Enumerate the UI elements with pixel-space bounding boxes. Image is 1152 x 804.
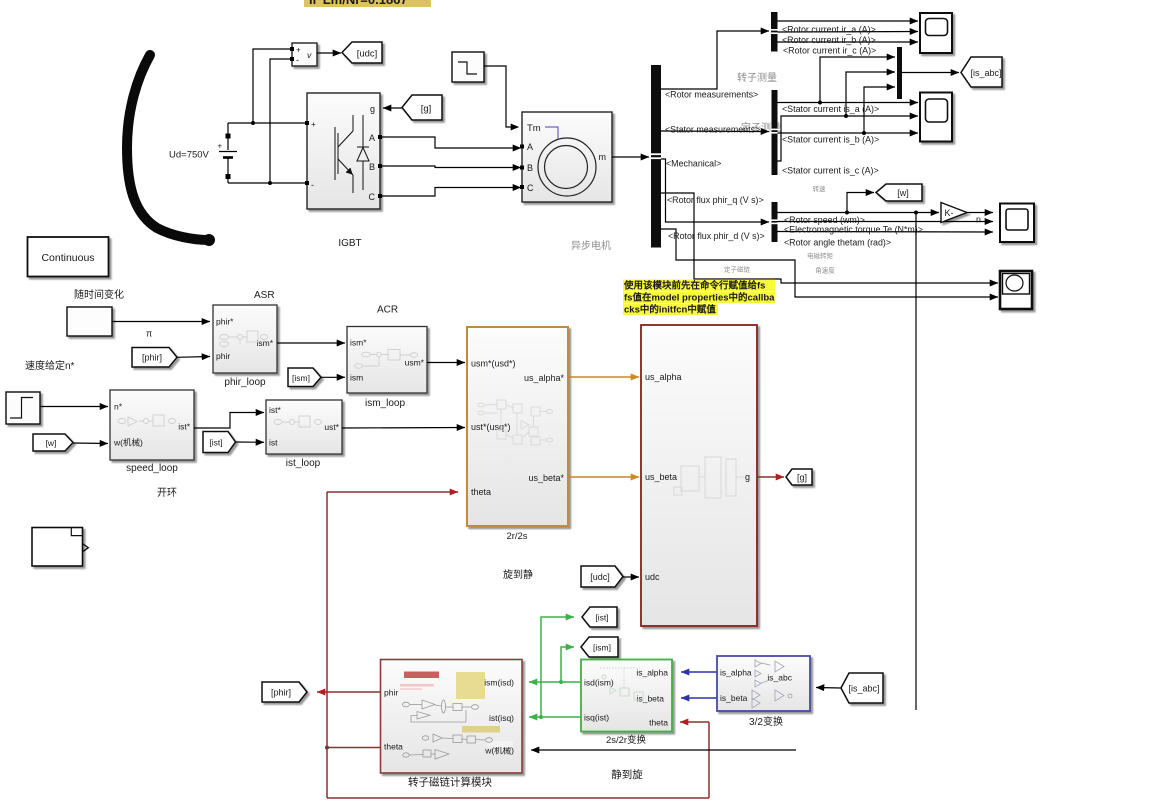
- svg-text:n*: n*: [114, 402, 123, 412]
- svg-text:ir*Lm/Nr=0.1867: ir*Lm/Nr=0.1867: [309, 0, 408, 7]
- svg-text:usm*: usm*: [405, 358, 425, 368]
- svg-text:角速度: 角速度: [815, 266, 835, 275]
- svg-text:is_beta: is_beta: [720, 693, 748, 703]
- svg-text:is_alpha: is_alpha: [720, 668, 752, 678]
- svg-text:<Rotor current ir_c (A)>: <Rotor current ir_c (A)>: [783, 46, 876, 56]
- svg-text:+: +: [296, 46, 301, 55]
- svg-text:<Electromagnetic torque Te (N*: <Electromagnetic torque Te (N*m)>: [784, 225, 923, 235]
- svg-text:usm*(usd*): usm*(usd*): [471, 359, 516, 369]
- svg-text:-: -: [311, 180, 314, 190]
- svg-text:udc: udc: [645, 572, 660, 582]
- svg-text:phir*: phir*: [216, 317, 234, 327]
- svg-text:cks中的initfcn中赋值: cks中的initfcn中赋值: [624, 304, 716, 316]
- svg-text:ACR: ACR: [377, 305, 398, 316]
- svg-text:ust*: ust*: [324, 422, 339, 432]
- svg-text:phir: phir: [216, 351, 230, 361]
- svg-text:电磁转矩: 电磁转矩: [807, 251, 834, 260]
- svg-text:ist_loop: ist_loop: [286, 458, 321, 469]
- svg-text:<Stator measurements>: <Stator measurements>: [665, 125, 760, 135]
- svg-text:<Rotor flux phir_q (V s)>: <Rotor flux phir_q (V s)>: [667, 195, 764, 205]
- svg-text:[phir]: [phir]: [142, 353, 162, 363]
- svg-text:异步电机: 异步电机: [571, 239, 611, 252]
- svg-text:[phir]: [phir]: [271, 688, 291, 698]
- svg-text:2r/2s: 2r/2s: [506, 531, 527, 542]
- svg-text:w(机械): w(机械): [113, 438, 143, 448]
- svg-text:is_beta: is_beta: [637, 694, 665, 704]
- svg-text:m: m: [599, 152, 607, 162]
- svg-text:π: π: [146, 329, 152, 339]
- svg-text:转速: 转速: [813, 184, 827, 193]
- svg-text:[ist]: [ist]: [595, 613, 608, 623]
- svg-text:使用该模块前先在命令行赋值给fs: 使用该模块前先在命令行赋值给fs: [623, 280, 765, 292]
- svg-text:B: B: [527, 163, 533, 173]
- svg-text:开环: 开环: [157, 488, 177, 499]
- svg-text:[g]: [g]: [797, 473, 807, 483]
- svg-text:ASR: ASR: [254, 290, 275, 301]
- svg-text:转子测量: 转子测量: [737, 71, 777, 84]
- svg-text:[w]: [w]: [46, 438, 57, 448]
- svg-text:g: g: [370, 104, 375, 114]
- svg-text:fs值在model properties中的callba: fs值在model properties中的callba: [624, 292, 775, 304]
- svg-text:<Stator current is_a (A)>: <Stator current is_a (A)>: [782, 104, 879, 114]
- svg-text:ist*: ist*: [269, 405, 282, 415]
- svg-text:<Rotor current ir_a (A)>: <Rotor current ir_a (A)>: [782, 25, 876, 35]
- svg-text:+: +: [311, 120, 316, 129]
- svg-text:is_alpha: is_alpha: [636, 668, 668, 678]
- svg-text:speed_loop: speed_loop: [126, 463, 178, 474]
- svg-text:Ud=750V: Ud=750V: [169, 150, 210, 161]
- svg-text:A: A: [369, 133, 375, 143]
- svg-text:[is_abc]: [is_abc]: [970, 68, 1001, 78]
- svg-text:随时间变化: 随时间变化: [74, 288, 124, 301]
- svg-text:ism*: ism*: [350, 338, 367, 348]
- svg-text:ist*: ist*: [178, 422, 191, 432]
- svg-text:Tm: Tm: [527, 123, 541, 134]
- svg-text:is_abc: is_abc: [767, 673, 792, 683]
- svg-text:theta: theta: [471, 487, 491, 497]
- svg-text:<Rotor speed (wm)>: <Rotor speed (wm)>: [784, 215, 865, 225]
- svg-text:n: n: [976, 215, 981, 225]
- svg-text:速度给定n*: 速度给定n*: [25, 359, 75, 372]
- svg-text:C: C: [527, 183, 534, 193]
- svg-text:<Stator current is_c (A)>: <Stator current is_c (A)>: [782, 166, 879, 176]
- svg-text:<Rotor measurements>: <Rotor measurements>: [665, 90, 758, 100]
- svg-text:K-: K-: [945, 208, 954, 218]
- svg-text:2s/2r变换: 2s/2r变换: [606, 734, 647, 746]
- svg-text:us_alpha*: us_alpha*: [524, 373, 565, 383]
- svg-text:<Rotor flux phir_d (V s)>: <Rotor flux phir_d (V s)>: [668, 231, 765, 241]
- svg-text:ism_loop: ism_loop: [365, 398, 405, 409]
- svg-text:3/2变换: 3/2变换: [749, 715, 783, 728]
- svg-text:us_beta: us_beta: [645, 472, 677, 482]
- svg-text:A: A: [527, 142, 533, 152]
- svg-text:ist(isq): ist(isq): [489, 713, 514, 723]
- svg-text:[ism]: [ism]: [292, 373, 310, 383]
- svg-text:[g]: [g]: [421, 104, 432, 115]
- svg-text:B: B: [369, 162, 375, 172]
- svg-text:[udc]: [udc]: [590, 572, 610, 582]
- svg-text:phir: phir: [384, 688, 398, 698]
- svg-text:Continuous: Continuous: [41, 252, 94, 264]
- svg-text:<Mechanical>: <Mechanical>: [666, 159, 721, 169]
- svg-text:IGBT: IGBT: [338, 238, 361, 249]
- svg-text:定子磁链: 定子磁链: [724, 265, 751, 274]
- svg-text:g: g: [745, 472, 750, 482]
- svg-text:theta: theta: [384, 742, 403, 752]
- svg-text:<Rotor angle thetam (rad)>: <Rotor angle thetam (rad)>: [784, 238, 891, 248]
- svg-text:[is_abc]: [is_abc]: [848, 684, 879, 694]
- svg-text:[w]: [w]: [897, 188, 909, 198]
- svg-text:isq(ist): isq(ist): [584, 713, 609, 723]
- svg-text:ist: ist: [269, 438, 278, 448]
- svg-text:<Rotor current ir_b (A)>: <Rotor current ir_b (A)>: [782, 35, 876, 45]
- svg-text:ism(isd): ism(isd): [484, 678, 514, 688]
- svg-text:isd(ism): isd(ism): [584, 678, 614, 688]
- svg-text:[ism]: [ism]: [593, 643, 611, 653]
- svg-text:静到旋: 静到旋: [611, 768, 643, 781]
- svg-text:theta: theta: [649, 718, 668, 728]
- svg-text:ust*(usq*): ust*(usq*): [471, 422, 511, 432]
- svg-text:phir_loop: phir_loop: [224, 377, 266, 388]
- svg-text:转子磁链计算模块: 转子磁链计算模块: [408, 776, 492, 789]
- svg-text:[udc]: [udc]: [357, 49, 378, 60]
- svg-text:[ist]: [ist]: [209, 438, 222, 448]
- svg-text:C: C: [369, 192, 376, 202]
- svg-text:-: -: [296, 55, 299, 65]
- svg-text:旋到静: 旋到静: [503, 568, 533, 581]
- svg-text:ism: ism: [350, 373, 363, 383]
- svg-text:us_beta*: us_beta*: [528, 473, 564, 483]
- svg-text:<Stator current is_b (A)>: <Stator current is_b (A)>: [782, 135, 879, 145]
- svg-text:us_alpha: us_alpha: [645, 372, 682, 382]
- svg-text:+: +: [218, 142, 223, 151]
